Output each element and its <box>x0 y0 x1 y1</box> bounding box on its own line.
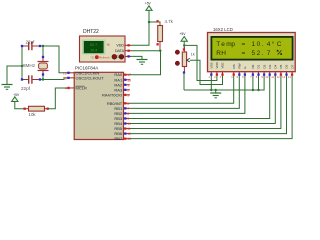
wire E to RB2 <box>130 76 245 113</box>
pin 13 RB7 <box>114 136 131 141</box>
svg-text:1k: 1k <box>191 51 195 56</box>
LCD pin 7 D0 <box>250 64 255 78</box>
svg-text:22pf: 22pf <box>21 86 31 91</box>
svg-text:6: 6 <box>127 102 129 106</box>
pin 3 RA4/T0CKI <box>102 92 130 97</box>
potentiometer RV1 <box>175 47 194 74</box>
wire D0 to bus <box>252 76 254 90</box>
svg-text:1: 1 <box>127 83 129 87</box>
wire pot bottom to ground bus <box>183 73 185 91</box>
svg-text:VEE: VEE <box>221 62 225 68</box>
LCD pin 1 VSS <box>209 62 214 78</box>
svg-text:Refresh: Refresh <box>99 55 110 59</box>
svg-text:RA4/T0CKI: RA4/T0CKI <box>102 92 122 97</box>
DHT22 pin GND <box>116 55 131 59</box>
svg-text:3: 3 <box>127 93 129 97</box>
wire GND to ground <box>131 56 142 58</box>
svg-text:12: 12 <box>277 75 281 79</box>
svg-text:4.7k: 4.7k <box>165 19 174 24</box>
svg-text:D6: D6 <box>285 64 289 68</box>
LCD pin 10 D3 <box>265 64 272 78</box>
svg-text:14: 14 <box>288 75 292 79</box>
LCD pin 6 E <box>242 66 247 78</box>
svg-text:RB7: RB7 <box>114 136 123 141</box>
svg-text:RS: RS <box>232 64 236 68</box>
LCD pin 12 D5 <box>277 64 284 78</box>
pin 6 RB0/INT <box>107 101 130 106</box>
svg-text:+5V: +5V <box>13 93 20 97</box>
+5V power LCD/pot <box>180 32 188 49</box>
DHT22 LCD readout <box>82 40 110 55</box>
+5V power MCLR <box>12 93 20 105</box>
svg-text:10.4: 10.4 <box>90 48 97 52</box>
svg-text:E: E <box>243 66 247 68</box>
+5V power DHT22 <box>145 1 152 10</box>
wire RW to RB1 <box>130 76 240 108</box>
wire D6 to RB6 <box>130 76 287 134</box>
capacitor C1 22pf <box>21 40 41 51</box>
sensor DHT22 <box>80 29 126 62</box>
LCD pin 5 RW <box>237 63 242 78</box>
svg-text:D5: D5 <box>279 64 283 68</box>
crystal X1 8MHz <box>23 56 49 76</box>
svg-text:GND: GND <box>116 55 124 59</box>
svg-text:8MHz: 8MHz <box>23 63 36 68</box>
svg-text:4: 4 <box>65 86 67 90</box>
pin 1 RA2 <box>114 82 130 87</box>
resistor R1 10k <box>23 106 48 117</box>
ground (LCD bus) <box>210 90 221 98</box>
svg-text:VDD: VDD <box>215 61 219 68</box>
pin 15 OSC2/CLKOUT <box>63 75 104 80</box>
ground (DHT22) <box>137 59 148 65</box>
pin 18 RA1 <box>114 77 131 82</box>
wire +5V branch to R2 <box>149 22 160 25</box>
pin 4 MCLR <box>65 85 87 90</box>
wire R1 to MCLR <box>48 88 68 109</box>
svg-text:+5V: +5V <box>145 1 152 5</box>
wire RS to RB0 <box>130 76 234 103</box>
svg-text:2: 2 <box>127 88 129 92</box>
svg-text:D7: D7 <box>290 64 294 68</box>
svg-text:9: 9 <box>127 117 129 121</box>
pin 8 RB2 <box>114 111 130 116</box>
wire +5V to LCD VDD <box>184 45 217 80</box>
pin 16 OSC1/CLKIN <box>63 70 100 75</box>
LCD pin 9 D2 <box>261 64 266 78</box>
svg-text:D0: D0 <box>251 64 255 68</box>
LCD pin 3 VEE <box>220 62 225 78</box>
DHT22 pin VDD <box>116 44 131 48</box>
LCD pin 11 D4 <box>271 64 277 78</box>
svg-text:RW: RW <box>238 63 242 68</box>
svg-text:VDD: VDD <box>116 44 124 48</box>
wire left ground rail <box>7 46 23 84</box>
wire VSS to bus <box>210 76 212 90</box>
LCD screen <box>211 36 294 61</box>
pin 17 RA0 <box>114 72 131 77</box>
svg-text:D4: D4 <box>274 64 278 68</box>
svg-text:+5V: +5V <box>180 32 187 36</box>
wire D1 to bus <box>258 76 260 90</box>
svg-text:16X2 LCD: 16X2 LCD <box>213 27 233 32</box>
pin 11 RB5 <box>114 126 130 131</box>
svg-text:52.7: 52.7 <box>90 43 97 47</box>
pin 9 RB3 <box>114 116 130 121</box>
svg-text:D3: D3 <box>268 64 272 68</box>
svg-text:11: 11 <box>271 75 274 79</box>
pin 7 RB1 <box>114 106 130 111</box>
display LCD1 16X2 LCD <box>208 27 296 72</box>
wire +5V to R1 <box>15 105 24 109</box>
wire pot wiper to LCD VEE <box>190 60 223 84</box>
svg-text:10: 10 <box>265 75 269 79</box>
wire +5V rail to VDD <box>131 10 150 45</box>
DHT22 pin DATA <box>115 49 131 53</box>
LCD pin 8 D1 <box>256 64 261 78</box>
svg-text:%: % <box>107 43 110 47</box>
wire D3 to RB3 <box>130 76 270 118</box>
svg-text:OSC2/CLKOUT: OSC2/CLKOUT <box>76 75 105 80</box>
pin 12 RB6 <box>114 131 131 136</box>
LCD pin 2 VDD <box>214 61 219 78</box>
ground (crystal caps) <box>2 84 13 89</box>
wire OSC1 net <box>40 45 68 73</box>
pin 10 RB4 <box>114 121 131 126</box>
wire D4 to RB4 <box>130 76 276 124</box>
svg-text:18: 18 <box>127 78 131 82</box>
LCD pin 13 D6 <box>282 64 289 78</box>
LCD pin 4 RS <box>231 64 236 78</box>
ground bus under LCD <box>184 76 264 91</box>
svg-text:16: 16 <box>63 71 67 75</box>
wire D5 to RB5 <box>130 76 281 129</box>
microcontroller U1 PIC16F84A <box>74 66 123 140</box>
wire DATA net <box>130 50 162 75</box>
svg-text:DATA: DATA <box>115 49 125 53</box>
svg-text:8: 8 <box>127 112 129 116</box>
wire D7 to RB7 <box>130 76 293 139</box>
DHT22 buttons <box>91 55 124 60</box>
capacitor C2 22pf <box>21 75 41 91</box>
svg-text:DHT22: DHT22 <box>83 29 99 35</box>
svg-text:VSS: VSS <box>210 62 214 68</box>
LCD pin 14 D7 <box>288 64 295 78</box>
svg-text:D1: D1 <box>257 64 261 68</box>
svg-text:D2: D2 <box>262 64 266 68</box>
svg-text:22pf: 22pf <box>26 40 36 45</box>
pin 2 RA3 <box>114 87 130 92</box>
svg-text:10k: 10k <box>29 112 37 117</box>
svg-text:13: 13 <box>282 75 286 79</box>
wire OSC2 net <box>40 75 68 81</box>
svg-text:15: 15 <box>63 76 67 80</box>
svg-text:7: 7 <box>127 107 129 111</box>
resistor R2 4.7k <box>156 19 173 51</box>
